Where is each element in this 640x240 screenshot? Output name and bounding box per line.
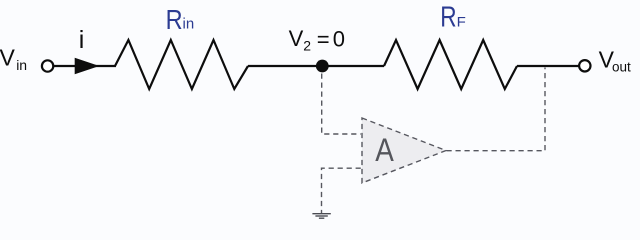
- label Vin: [0, 45, 27, 73]
- svg-text:in: in: [16, 57, 27, 73]
- svg-text:V: V: [0, 45, 16, 71]
- svg-text:2: 2: [303, 38, 311, 54]
- svg-text:0: 0: [333, 27, 345, 52]
- wire Rin to node: [248, 65, 384, 67]
- wire op-amp output to Vout net (dashed): [447, 68, 546, 151]
- op-amp A (ghosted): [362, 118, 446, 183]
- resistor Rin: [115, 40, 248, 89]
- svg-text:=: =: [317, 27, 330, 52]
- terminal Vout: [579, 60, 590, 71]
- label Rin: [166, 5, 195, 35]
- terminal Vin: [42, 60, 53, 71]
- wire node to op-amp inverting input (dashed): [322, 74, 361, 135]
- wire RF to Vout: [517, 65, 579, 67]
- svg-text:R: R: [440, 0, 456, 33]
- resistor RF: [384, 40, 517, 89]
- svg-text:in: in: [183, 16, 195, 33]
- label RF: [440, 0, 466, 33]
- ground: [312, 214, 330, 219]
- wire ground to op-amp non-inverting input (dashed): [322, 168, 361, 214]
- label V2 = 0: [289, 26, 345, 54]
- svg-text:F: F: [457, 14, 466, 30]
- svg-text:V: V: [289, 26, 304, 51]
- svg-text:R: R: [166, 5, 183, 35]
- svg-text:i: i: [79, 26, 85, 54]
- current arrow i: [75, 58, 100, 74]
- svg-text:out: out: [612, 60, 631, 75]
- svg-text:A: A: [375, 133, 394, 168]
- label Vout: [599, 47, 631, 75]
- node V2 junction dot: [316, 60, 329, 73]
- wire Vin to Rin: [54, 65, 117, 67]
